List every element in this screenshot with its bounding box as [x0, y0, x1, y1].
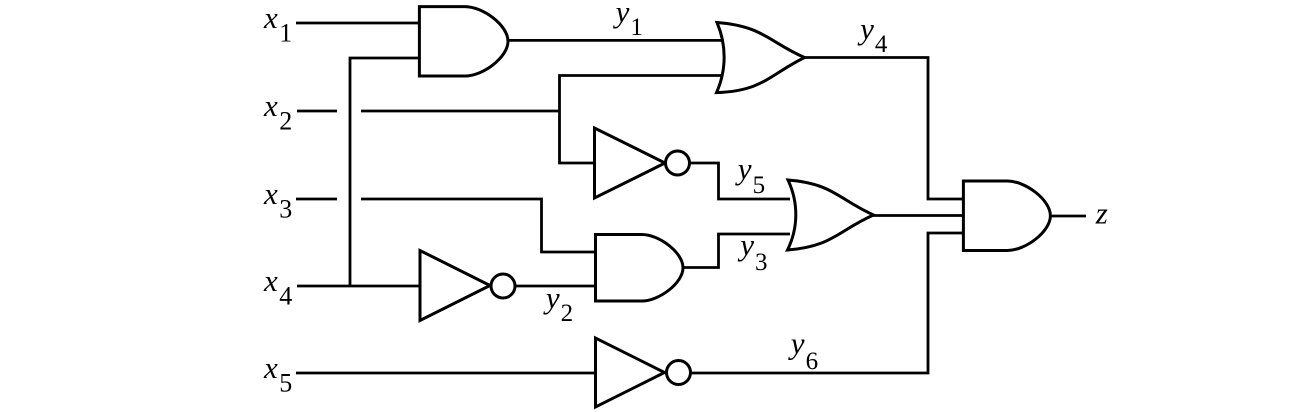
AND gate G1 (output y1): [419, 7, 508, 76]
NOT gate G6 triangle (output y5): [595, 128, 666, 198]
svg-text:x2: x2: [263, 88, 292, 135]
wire x5 input: [296, 372, 597, 375]
svg-text:z: z: [1095, 195, 1108, 230]
NOT gate G7 bubble: [491, 274, 515, 298]
svg-text:x1: x1: [263, 0, 292, 47]
wire y2 from NOT2 to AND2: [515, 285, 597, 288]
wire y3 from AND2 to OR2: [683, 234, 790, 268]
NOT gate G8 triangle (output y6): [596, 338, 665, 407]
wire y6 from NOT3 to AND3 bottom input: [691, 233, 966, 373]
svg-text:x4: x4: [263, 263, 292, 310]
wire from OR2 to AND3 middle input: [873, 214, 966, 217]
OR gate G5 (inputs y5,y3): [788, 180, 874, 250]
NOT gate G7 triangle (output y2): [420, 251, 490, 321]
AND gate G3 (output z): [963, 181, 1050, 251]
svg-text:y6: y6: [788, 326, 818, 376]
svg-text:x5: x5: [263, 350, 292, 397]
wire x4 input: [297, 285, 421, 288]
wire x3 input segment: [296, 198, 337, 201]
wire x2 input segment: [297, 110, 337, 113]
svg-text:y4: y4: [857, 11, 888, 58]
wire x2 continued to junction: [361, 110, 560, 113]
NOT gate G8 bubble: [667, 361, 691, 385]
OR gate G4 (output y4): [717, 23, 805, 93]
wire node x2 split: up to OR1, down to NOT1: [560, 76, 724, 164]
wire x4 branch to AND1 second input: [350, 58, 421, 286]
svg-text:x3: x3: [263, 176, 292, 223]
wire y1 from AND1 to OR1: [507, 39, 722, 42]
wire x3 routed to AND2 top input: [361, 199, 597, 252]
svg-text:y5: y5: [735, 151, 765, 199]
NOT gate G6 bubble: [666, 151, 690, 175]
wire x1 input: [296, 22, 421, 25]
wire y5 from NOT1 to OR2: [690, 163, 791, 199]
svg-text:y1: y1: [613, 0, 643, 41]
wire z output: [1049, 215, 1086, 218]
wire y4 from OR1 to AND3 top input: [804, 58, 965, 200]
AND gate G2 (output y3): [596, 235, 684, 302]
